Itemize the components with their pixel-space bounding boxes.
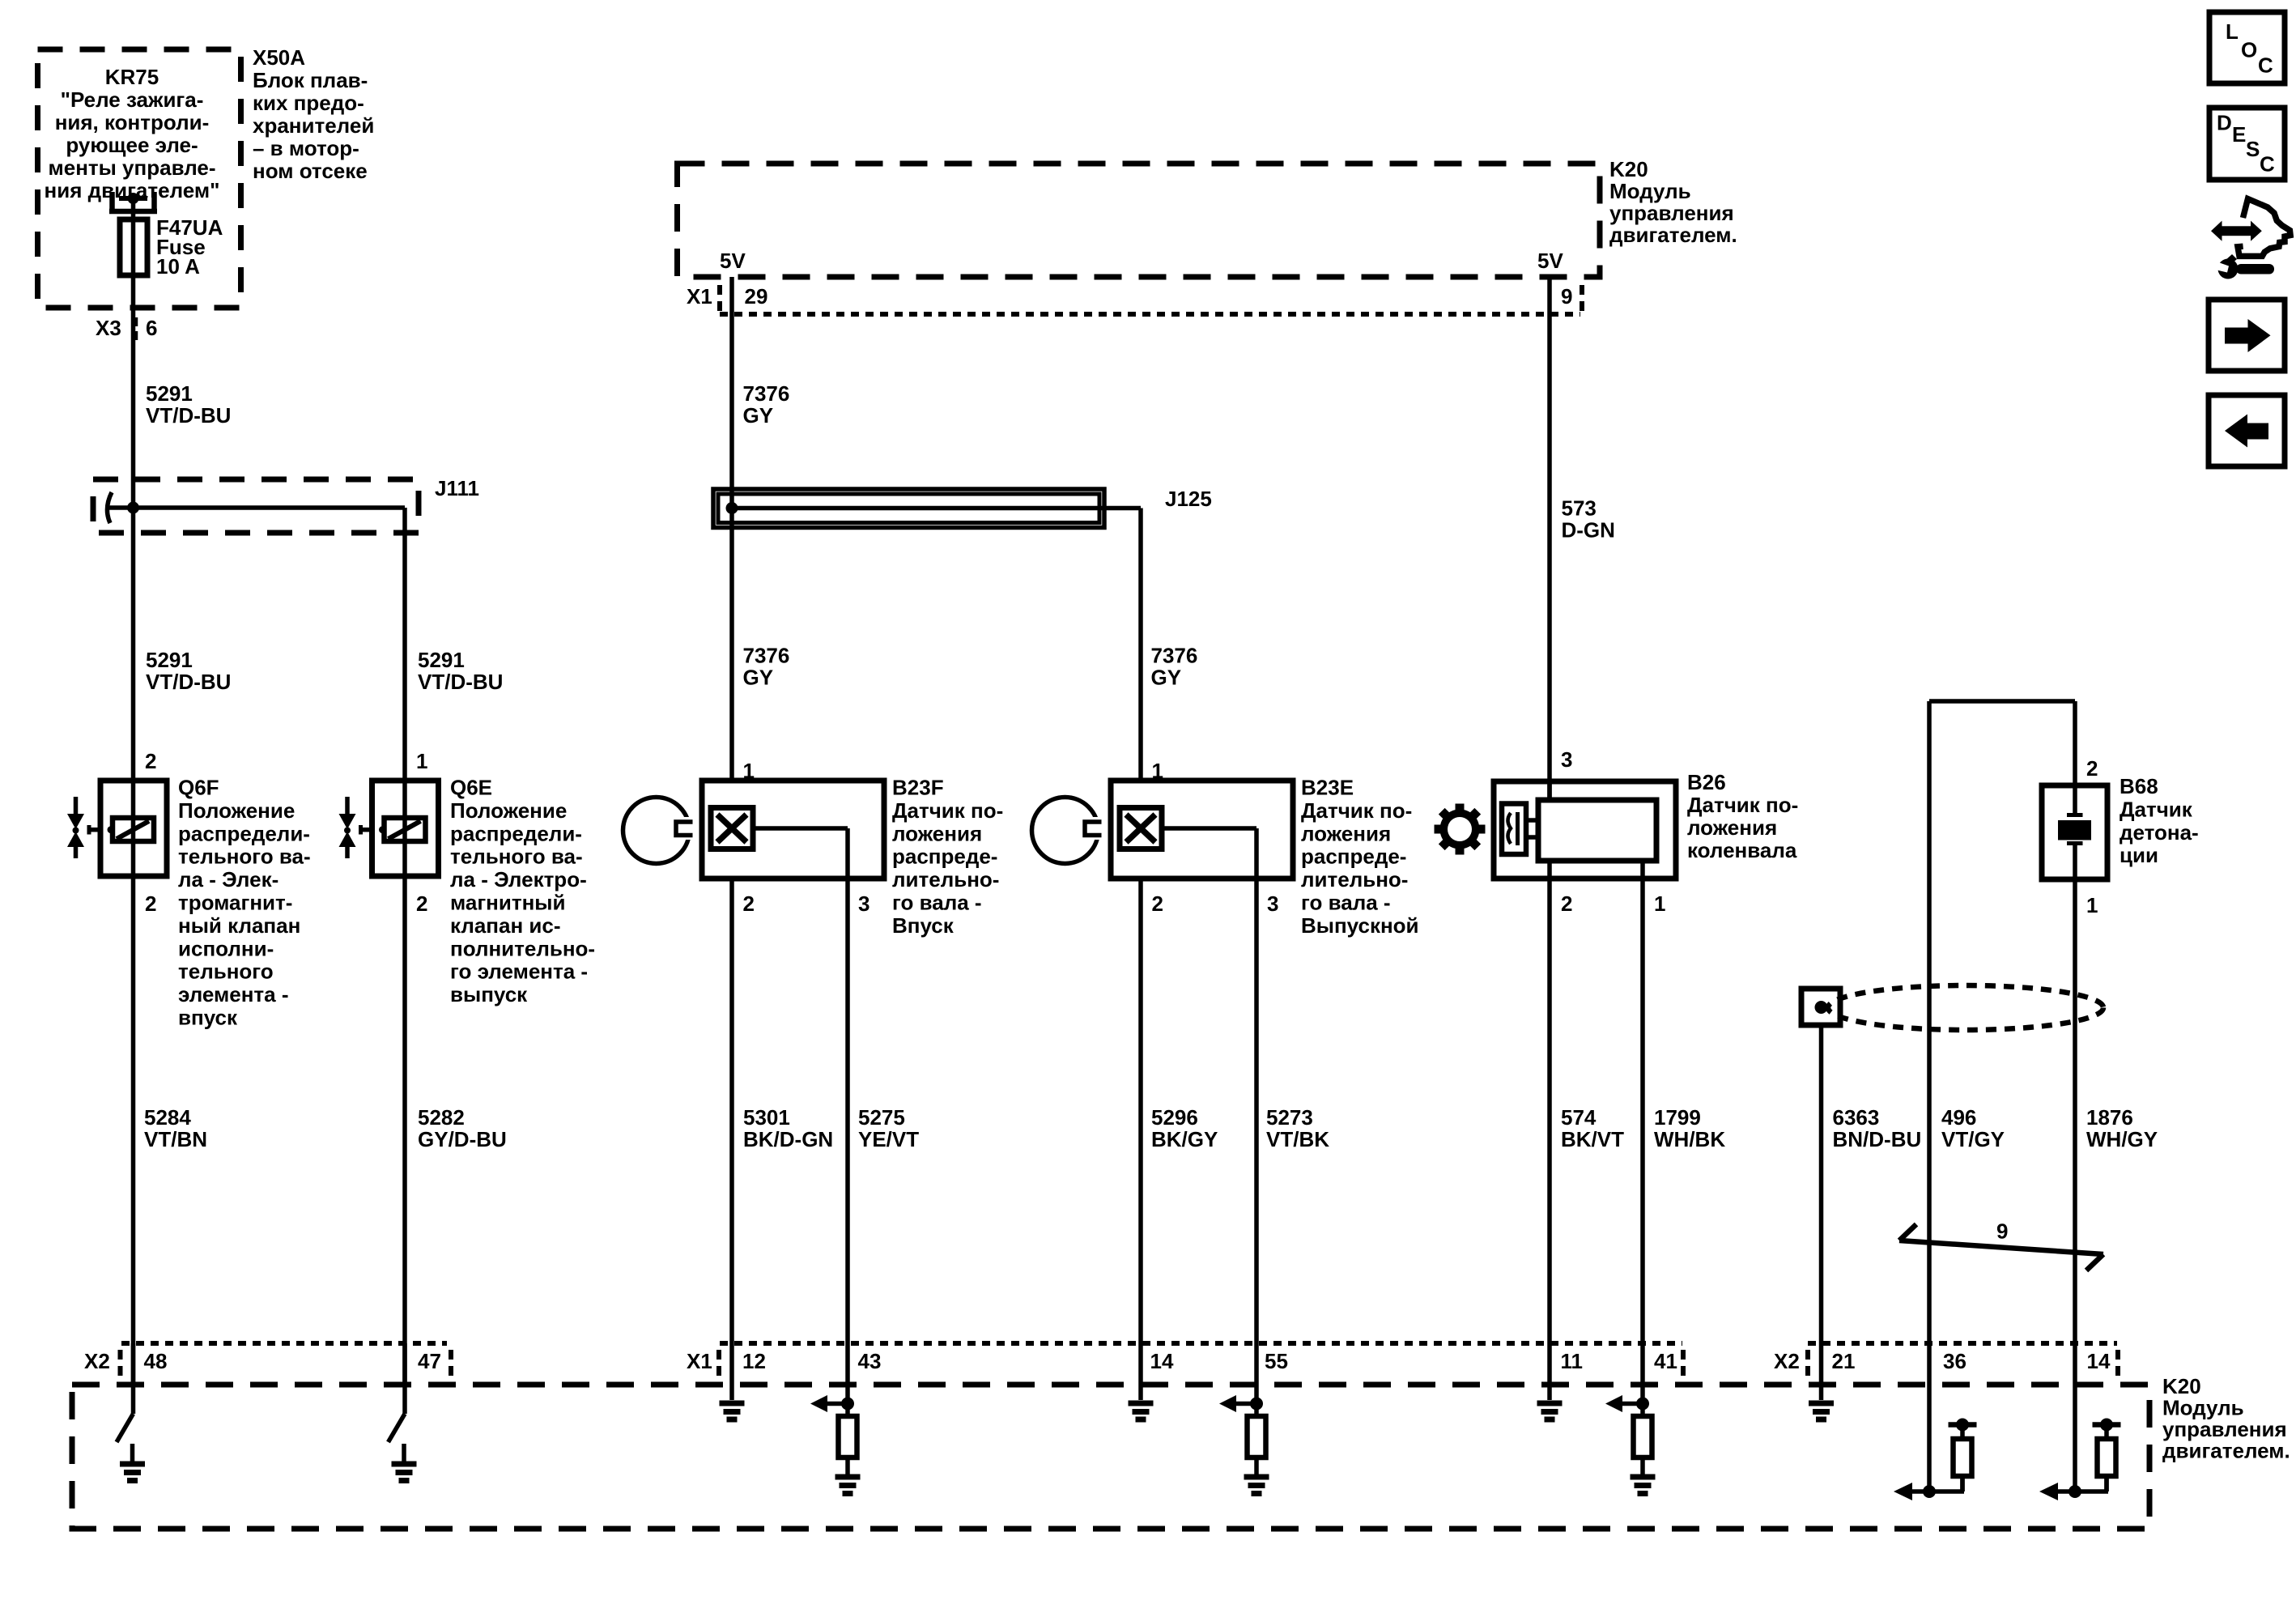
svg-text:Датчик по-: Датчик по- <box>1301 798 1412 823</box>
svg-text:распреде-: распреде- <box>892 845 997 869</box>
svg-text:тельного: тельного <box>178 960 274 984</box>
svg-text:5301: 5301 <box>743 1105 790 1130</box>
svg-text:14: 14 <box>1150 1349 1174 1373</box>
svg-text:тельного ва-: тельного ва- <box>178 845 311 869</box>
svg-text:ния, контроли-: ния, контроли- <box>55 110 210 134</box>
svg-text:573: 573 <box>1562 496 1597 521</box>
svg-text:C: C <box>2258 53 2273 78</box>
svg-text:10 A: 10 A <box>156 254 200 279</box>
svg-text:X1: X1 <box>687 284 712 309</box>
svg-text:ла - Электро-: ла - Электро- <box>450 867 587 891</box>
svg-text:3: 3 <box>1267 891 1278 916</box>
svg-text:элемента -: элемента - <box>178 982 288 1006</box>
svg-text:распреде-: распреде- <box>1301 845 1406 869</box>
svg-text:Положение: Положение <box>178 798 295 823</box>
svg-text:21: 21 <box>1832 1349 1856 1373</box>
svg-text:коленвала: коленвала <box>1687 838 1797 862</box>
svg-text:C: C <box>2260 152 2275 177</box>
svg-text:магнитный: магнитный <box>450 891 566 915</box>
svg-text:хранителей: хранителей <box>253 113 374 138</box>
svg-text:14: 14 <box>2087 1349 2111 1373</box>
svg-text:D-GN: D-GN <box>1562 518 1615 543</box>
svg-text:управления: управления <box>2162 1417 2287 1441</box>
svg-text:лительно-: лительно- <box>892 867 999 891</box>
svg-text:ный клапан: ный клапан <box>178 913 300 938</box>
svg-text:7376: 7376 <box>743 644 790 668</box>
svg-text:ложения: ложения <box>1301 821 1391 845</box>
svg-text:1: 1 <box>416 749 427 773</box>
svg-text:12: 12 <box>742 1349 766 1373</box>
svg-text:2: 2 <box>743 891 755 916</box>
svg-text:двигателем.: двигателем. <box>2162 1439 2290 1463</box>
svg-text:VT/D-BU: VT/D-BU <box>418 670 503 694</box>
svg-text:KR75: KR75 <box>105 65 159 89</box>
svg-text:X3: X3 <box>96 316 121 340</box>
svg-text:выпуск: выпуск <box>450 982 528 1006</box>
svg-text:Датчик по-: Датчик по- <box>892 798 1003 823</box>
svg-text:ции: ции <box>2120 843 2158 867</box>
svg-text:Выпускной: Выпускной <box>1301 913 1419 938</box>
svg-text:41: 41 <box>1654 1349 1677 1373</box>
svg-text:исполни-: исполни- <box>178 936 274 960</box>
svg-text:BK/D-GN: BK/D-GN <box>743 1127 833 1151</box>
svg-text:5291: 5291 <box>418 648 465 672</box>
svg-text:ких предо-: ких предо- <box>253 91 364 115</box>
svg-text:5291: 5291 <box>146 648 193 672</box>
svg-text:L: L <box>2226 19 2239 44</box>
svg-text:GY: GY <box>1151 666 1182 690</box>
svg-text:11: 11 <box>1561 1349 1584 1373</box>
svg-text:распредели-: распредели- <box>450 821 582 845</box>
svg-text:2: 2 <box>2086 756 2098 781</box>
svg-text:BK/VT: BK/VT <box>1561 1127 1624 1151</box>
svg-text:VT/BN: VT/BN <box>144 1127 207 1151</box>
svg-text:го элемента -: го элемента - <box>450 960 588 984</box>
svg-text:Модуль: Модуль <box>1609 179 1691 203</box>
svg-text:ложения: ложения <box>1687 815 1777 840</box>
svg-text:двигателем.: двигателем. <box>1609 223 1737 247</box>
svg-text:YE/VT: YE/VT <box>858 1127 919 1151</box>
svg-text:детона-: детона- <box>2120 820 2199 845</box>
svg-text:управления: управления <box>1609 201 1734 225</box>
svg-text:Положение: Положение <box>450 798 567 823</box>
svg-text:5V: 5V <box>1537 249 1563 273</box>
svg-text:574: 574 <box>1561 1105 1597 1130</box>
svg-text:36: 36 <box>1943 1349 1966 1373</box>
svg-text:2: 2 <box>1561 891 1572 916</box>
svg-text:менты управле-: менты управле- <box>49 155 216 180</box>
svg-text:GY/D-BU: GY/D-BU <box>418 1127 507 1151</box>
svg-text:X1: X1 <box>687 1349 712 1373</box>
svg-text:7376: 7376 <box>1151 644 1198 668</box>
svg-text:впуск: впуск <box>178 1006 238 1030</box>
svg-text:2: 2 <box>1152 891 1163 916</box>
svg-text:43: 43 <box>858 1349 882 1373</box>
svg-text:Блок плав-: Блок плав- <box>253 68 368 92</box>
svg-text:5V: 5V <box>720 249 746 273</box>
svg-text:2: 2 <box>145 891 156 916</box>
svg-text:48: 48 <box>144 1349 168 1373</box>
svg-text:лительно-: лительно- <box>1301 867 1408 891</box>
svg-text:5282: 5282 <box>418 1105 465 1130</box>
svg-text:5296: 5296 <box>1151 1105 1198 1130</box>
svg-text:ложения: ложения <box>892 821 982 845</box>
svg-text:D: D <box>2217 111 2232 135</box>
svg-text:Датчик по-: Датчик по- <box>1687 793 1798 817</box>
svg-text:5273: 5273 <box>1266 1105 1313 1130</box>
svg-text:9: 9 <box>1996 1219 2008 1244</box>
svg-text:рующее эле-: рующее эле- <box>66 133 198 157</box>
svg-text:Модуль: Модуль <box>2162 1396 2244 1420</box>
svg-text:VT/D-BU: VT/D-BU <box>146 403 231 428</box>
svg-text:X2: X2 <box>1774 1349 1800 1373</box>
svg-text:K20: K20 <box>1609 157 1648 181</box>
svg-text:3: 3 <box>1561 747 1572 772</box>
svg-text:"Реле зажига-: "Реле зажига- <box>61 87 204 112</box>
svg-text:X50A: X50A <box>253 45 305 70</box>
svg-text:2: 2 <box>416 891 427 916</box>
svg-text:WH/GY: WH/GY <box>2086 1127 2158 1151</box>
svg-text:GY: GY <box>743 403 774 428</box>
svg-text:496: 496 <box>1941 1105 1976 1130</box>
svg-text:B68: B68 <box>2120 774 2158 798</box>
svg-text:B23F: B23F <box>892 776 944 800</box>
svg-text:распредели-: распредели- <box>178 821 310 845</box>
svg-text:J125: J125 <box>1165 487 1212 511</box>
svg-text:VT/GY: VT/GY <box>1941 1127 2005 1151</box>
svg-text:6363: 6363 <box>1833 1105 1880 1130</box>
svg-text:тромагнит-: тромагнит- <box>178 891 292 915</box>
svg-text:го вала -: го вала - <box>892 891 982 915</box>
svg-text:K20: K20 <box>2162 1374 2201 1398</box>
svg-text:1: 1 <box>2086 893 2098 917</box>
svg-text:S: S <box>2246 137 2260 161</box>
svg-text:55: 55 <box>1265 1349 1288 1373</box>
svg-text:Q6E: Q6E <box>450 776 492 800</box>
svg-text:VT/D-BU: VT/D-BU <box>146 670 231 694</box>
svg-text:– в мотор-: – в мотор- <box>253 136 359 160</box>
svg-text:WH/BK: WH/BK <box>1654 1127 1725 1151</box>
svg-text:1: 1 <box>1654 891 1665 916</box>
svg-text:1799: 1799 <box>1654 1105 1701 1130</box>
svg-text:5275: 5275 <box>858 1105 905 1130</box>
svg-text:O: O <box>2241 38 2257 62</box>
svg-text:6: 6 <box>146 316 157 340</box>
svg-text:E: E <box>2232 122 2246 147</box>
svg-text:тельного ва-: тельного ва- <box>450 845 583 869</box>
svg-text:3: 3 <box>858 891 870 916</box>
svg-text:29: 29 <box>745 284 768 309</box>
svg-text:ном отсеке: ном отсеке <box>253 159 368 183</box>
svg-text:полнительно-: полнительно- <box>450 936 595 960</box>
svg-text:X2: X2 <box>84 1349 110 1373</box>
svg-text:Датчик: Датчик <box>2120 797 2193 821</box>
svg-text:ла - Элек-: ла - Элек- <box>178 867 278 891</box>
svg-text:5291: 5291 <box>146 381 193 406</box>
svg-text:BK/GY: BK/GY <box>1151 1127 1218 1151</box>
svg-text:Q6F: Q6F <box>178 776 219 800</box>
svg-text:9: 9 <box>1561 284 1572 309</box>
svg-text:клапан ис-: клапан ис- <box>450 913 561 938</box>
svg-text:BN/D-BU: BN/D-BU <box>1833 1127 1922 1151</box>
svg-text:2: 2 <box>145 749 156 773</box>
svg-text:J111: J111 <box>435 476 479 500</box>
svg-text:1876: 1876 <box>2086 1105 2133 1130</box>
svg-text:GY: GY <box>743 666 774 690</box>
svg-text:7376: 7376 <box>743 381 790 406</box>
svg-text:VT/BK: VT/BK <box>1266 1127 1329 1151</box>
svg-text:47: 47 <box>418 1349 441 1373</box>
svg-text:Впуск: Впуск <box>892 913 955 938</box>
svg-text:го вала -: го вала - <box>1301 891 1391 915</box>
svg-text:B23E: B23E <box>1301 776 1354 800</box>
svg-text:B26: B26 <box>1687 770 1726 794</box>
svg-text:5284: 5284 <box>144 1105 191 1130</box>
